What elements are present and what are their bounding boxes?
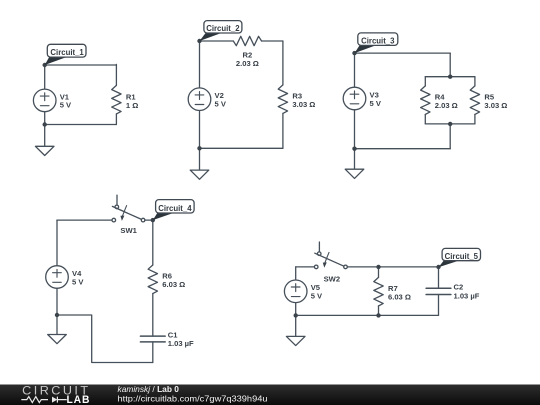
wire below V5 — [295, 303, 297, 337]
svg-text:Circuit_3: Circuit_3 — [361, 36, 395, 45]
wire R4 bottom lead — [424, 114, 426, 123]
logo diode — [52, 397, 57, 403]
wire left lower circuit 1 — [44, 112, 46, 146]
node circuit 5 R7 top — [376, 265, 380, 269]
svg-text:C1: C1 — [168, 330, 178, 339]
footer bar — [0, 385, 540, 405]
svg-text:6.03 Ω: 6.03 Ω — [162, 280, 185, 289]
wire bottom jog circuit 4 — [57, 315, 153, 363]
svg-text:5 V: 5 V — [60, 101, 72, 110]
wire right lower circuit 1 — [115, 114, 117, 125]
svg-text:1.03 µF: 1.03 µF — [168, 339, 194, 348]
svg-text:SW1: SW1 — [120, 226, 137, 235]
svg-text:5 V: 5 V — [215, 100, 227, 109]
resistor R1 — [112, 85, 121, 114]
wire switch SW1 right lead — [145, 219, 153, 221]
wire R7 top lead — [378, 267, 380, 278]
svg-text:C2: C2 — [454, 283, 464, 292]
wire switch SW2 right lead — [347, 266, 438, 268]
resistor R3 — [278, 85, 287, 114]
svg-text:Circuit_4: Circuit_4 — [158, 204, 192, 213]
label Circuit_1 — [45, 44, 86, 65]
node circuit 2 bottom — [197, 146, 201, 150]
wire top left circuit 2 — [200, 40, 234, 42]
wire left upper circuit 3 — [354, 53, 356, 87]
wire bottom rail circuit 5 — [296, 314, 439, 316]
wire R7 bottom lead — [378, 306, 380, 315]
svg-text:Circuit_5: Circuit_5 — [445, 252, 479, 261]
wire R6 to C1 — [152, 294, 154, 337]
wire left upper circuit 1 — [44, 65, 46, 89]
wire top right circuit 2 — [262, 40, 283, 42]
label Circuit_5 — [439, 248, 481, 267]
switch SW1 — [116, 195, 118, 205]
node circuit 3 bottom — [352, 147, 356, 151]
label Circuit_2 — [200, 21, 242, 41]
resistor R7 — [374, 277, 383, 306]
svg-text:3.03 Ω: 3.03 Ω — [484, 101, 507, 110]
node circuit 3 parallel bottom — [448, 122, 452, 126]
ground circuit 2 — [190, 170, 209, 179]
resistor R2 — [233, 36, 261, 45]
svg-text:5 V: 5 V — [72, 277, 84, 286]
resistor R4 — [421, 86, 430, 115]
wire left drop circuit 5 — [295, 267, 297, 280]
wire top rail circuit 1 — [45, 64, 117, 66]
wire bottom rail circuit 1 — [45, 124, 117, 126]
voltage source V4 — [46, 266, 69, 289]
node circuit 4 top — [151, 218, 155, 222]
svg-text:LAB: LAB — [67, 394, 91, 405]
wire below V4 — [56, 288, 58, 334]
wire R5 top lead — [474, 77, 476, 86]
node circuit 1 bottom — [43, 122, 47, 126]
node circuit 2 top — [197, 39, 201, 43]
svg-text:6.03 Ω: 6.03 Ω — [388, 293, 411, 302]
node circuit 5 bottom left — [294, 313, 298, 317]
ground circuit 3 — [345, 169, 364, 178]
wire right upper circuit 2 — [282, 41, 284, 85]
voltage source V2 — [188, 88, 211, 111]
svg-text:5 V: 5 V — [370, 99, 382, 108]
wire bottom drop circuit 3 — [449, 124, 451, 149]
wire R5 bottom lead — [474, 114, 476, 123]
wire left drop circuit 4 — [56, 220, 58, 266]
svg-text:kaminskj / Lab 0: kaminskj / Lab 0 — [118, 384, 180, 394]
wire C2 top lead — [438, 267, 440, 288]
voltage source V5 — [284, 280, 307, 303]
resistor R5 — [470, 86, 479, 115]
wire R4 top lead — [424, 77, 426, 86]
wire left upper circuit 2 — [199, 41, 201, 88]
svg-text:3.03 Ω: 3.03 Ω — [292, 100, 315, 109]
svg-text:2.03 Ω: 2.03 Ω — [236, 59, 259, 68]
wire right lower circuit 2 — [282, 113, 284, 148]
label Circuit_3 — [355, 33, 398, 53]
svg-text:2.03 Ω: 2.03 Ω — [435, 101, 458, 110]
wire right upper circuit 1 — [115, 64, 117, 85]
svg-text:1.03 µF: 1.03 µF — [454, 291, 480, 300]
node circuit 5 top right — [436, 265, 440, 269]
label Circuit_4 — [153, 200, 194, 221]
node circuit 1 top — [43, 63, 47, 67]
svg-text:Circuit_1: Circuit_1 — [50, 48, 84, 57]
capacitor C2 — [426, 288, 451, 294]
voltage source V3 — [343, 87, 366, 110]
svg-text:5 V: 5 V — [311, 292, 323, 301]
capacitor C1 — [140, 336, 165, 342]
wire R6 top lead — [152, 220, 154, 265]
wire C2 bottom lead — [438, 295, 440, 316]
ground circuit 5 — [286, 336, 305, 345]
wire left lower circuit 3 — [354, 110, 356, 169]
node circuit 5 R7 bottom — [376, 313, 380, 317]
wire parallel bottom branch circuit 3 — [425, 123, 475, 125]
ground circuit 1 — [35, 146, 54, 155]
wire top left circuit 5 — [296, 266, 315, 268]
voltage source V1 — [33, 89, 56, 112]
wire left lower circuit 2 — [199, 111, 201, 170]
resistor R6 — [148, 265, 157, 294]
ground circuit 4 — [48, 335, 67, 344]
node circuit 4 bottom — [55, 313, 59, 317]
node circuit 3 parallel top — [448, 75, 452, 79]
wire parallel top branch circuit 3 — [425, 76, 475, 78]
wire bottom rail circuit 2 — [200, 147, 283, 149]
switch SW2 — [318, 242, 320, 252]
logo resistor squiggle — [21, 397, 48, 403]
svg-text:Circuit_2: Circuit_2 — [206, 24, 240, 33]
wire switch SW1 left lead — [57, 219, 112, 221]
svg-text:SW2: SW2 — [324, 275, 340, 284]
wire top drop circuit 3 — [449, 53, 451, 77]
wire C1 bottom lead — [152, 342, 154, 363]
wire top rail circuit 3 — [355, 52, 451, 54]
node circuit 3 top — [352, 51, 356, 55]
svg-text:http://circuitlab.com/c7gw7q33: http://circuitlab.com/c7gw7q339h94u — [118, 393, 268, 403]
wire bottom rail circuit 3 — [355, 148, 451, 150]
svg-text:1 Ω: 1 Ω — [126, 101, 138, 110]
